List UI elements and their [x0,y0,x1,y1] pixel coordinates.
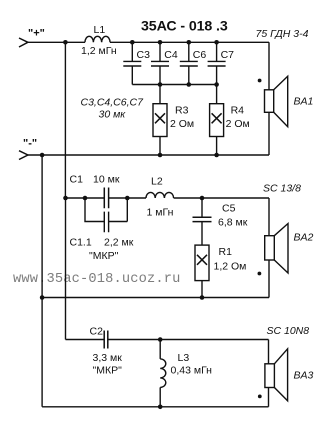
svg-text:BA2: BA2 [294,232,314,244]
node R3 bottom [158,153,163,158]
capacitor C1 [104,188,127,209]
svg-text:C4: C4 [164,49,178,61]
svg-text:"МКР": "МКР" [89,250,119,262]
svg-text:L3: L3 [178,352,190,364]
svg-text:SC 10N8: SC 10N8 [267,325,310,337]
node minus junction [40,153,45,158]
node C4 bottom / R3 top [158,82,163,87]
node L3 bottom [158,405,163,410]
svg-text:C5: C5 [222,203,236,215]
node C6 top [187,40,192,45]
wire left rail x42 [41,155,43,407]
wire C1 to L2 [127,197,146,199]
svg-text:75 ГДН 3-4: 75 ГДН 3-4 [256,28,309,40]
capacitor C2 [104,331,268,349]
svg-text:30 мк: 30 мк [99,109,127,121]
svg-text:10 мк: 10 мк [93,174,120,186]
inductor L1 [85,36,110,42]
node junction + at x65 [63,40,68,45]
node C7 top [214,40,219,45]
speaker BA3 [265,349,288,401]
node R1 bottom [200,295,205,300]
node C6 bottom [187,82,192,87]
svg-text:L2: L2 [151,176,163,188]
capacitor C5 [193,198,212,245]
speaker BA2 [265,224,288,274]
svg-text:1,2 Ом: 1,2 Ом [214,261,247,273]
svg-text:1,2 мГн: 1,2 мГн [81,45,117,57]
svg-text:C6: C6 [193,49,207,61]
wire C2 branch from x66 [66,339,105,341]
node mid return junction [40,295,45,300]
polarity dot BA3 [258,395,262,399]
svg-text:SC 13/8: SC 13/8 [263,183,301,195]
wire mid branch to C1 [66,197,105,199]
node C3 top [130,40,135,45]
wire top rail L1 to right bus [110,41,269,43]
svg-text:C1: C1 [70,174,84,186]
node C7 bottom / R4 top [214,82,219,87]
node C1 left [83,196,88,201]
svg-text:R4: R4 [231,105,245,117]
svg-text:R1: R1 [219,246,233,258]
svg-text:C3: C3 [137,49,151,61]
node mid branch start [63,196,68,201]
svg-text:2 Ом: 2 Ом [170,118,194,130]
svg-text:"+": "+" [28,28,45,40]
node C5 top [200,196,205,201]
svg-text:2,2 мк: 2,2 мк [104,237,134,249]
input terminal "-" [19,151,28,160]
svg-text:BA3: BA3 [294,370,314,382]
svg-text:35АС - 018 .3: 35АС - 018 .3 [141,19,228,35]
resistor R1 [195,245,209,297]
node C4 top [158,40,163,45]
svg-text:0,43 мГн: 0,43 мГн [171,365,213,377]
inductor L3 [160,340,166,407]
svg-text:www.35ac-018.ucoz.ru: www.35ac-018.ucoz.ru [13,272,180,287]
wire L2 to right bus mid [174,197,269,199]
svg-text:2 Ом: 2 Ом [226,118,250,130]
capacitor C4 [151,42,169,84]
node R4 bottom [214,153,219,158]
capacitor C3 [123,42,141,84]
resistor R3 [153,85,167,156]
svg-text:"-": "-" [23,138,37,150]
capacitor C7 [208,42,226,84]
resistor R4 [210,85,224,156]
svg-text:C3,C4,C6,C7: C3,C4,C6,C7 [81,97,145,109]
polarity dot BA1 [258,79,262,83]
wire minus rail [28,154,269,156]
svg-text:3,3 мк: 3,3 мк [93,352,123,364]
wire mid right bus [268,198,270,298]
polarity dot BA2 [258,272,262,276]
input terminal "+" [19,38,28,47]
wire right bus top section [268,42,270,155]
node C1 right [125,196,130,201]
svg-text:R3: R3 [175,105,189,117]
svg-text:1 мГн: 1 мГн [147,207,174,219]
wire bottom rail [42,406,268,408]
wire + input to L1 [28,41,85,43]
wire mid bottom rail [42,297,269,299]
svg-text:BA1: BA1 [294,96,314,108]
svg-text:C7: C7 [221,49,235,61]
capacitor C6 [180,42,198,84]
speaker BA1 [265,76,288,126]
svg-text:6,8 мк: 6,8 мк [218,217,248,229]
svg-text:L1: L1 [94,24,106,36]
wire right bus bottom section [268,340,270,407]
capacitor C1.1 parallel branch [85,198,127,232]
wire capacitor bottom rail [132,84,216,86]
wire plus drop rail x66 [64,42,66,339]
svg-text:C1.1: C1.1 [70,237,92,249]
svg-text:"МКР": "МКР" [93,365,123,377]
node L3 top [158,337,163,342]
svg-text:C2: C2 [90,326,104,338]
inductor L2 [146,192,174,198]
